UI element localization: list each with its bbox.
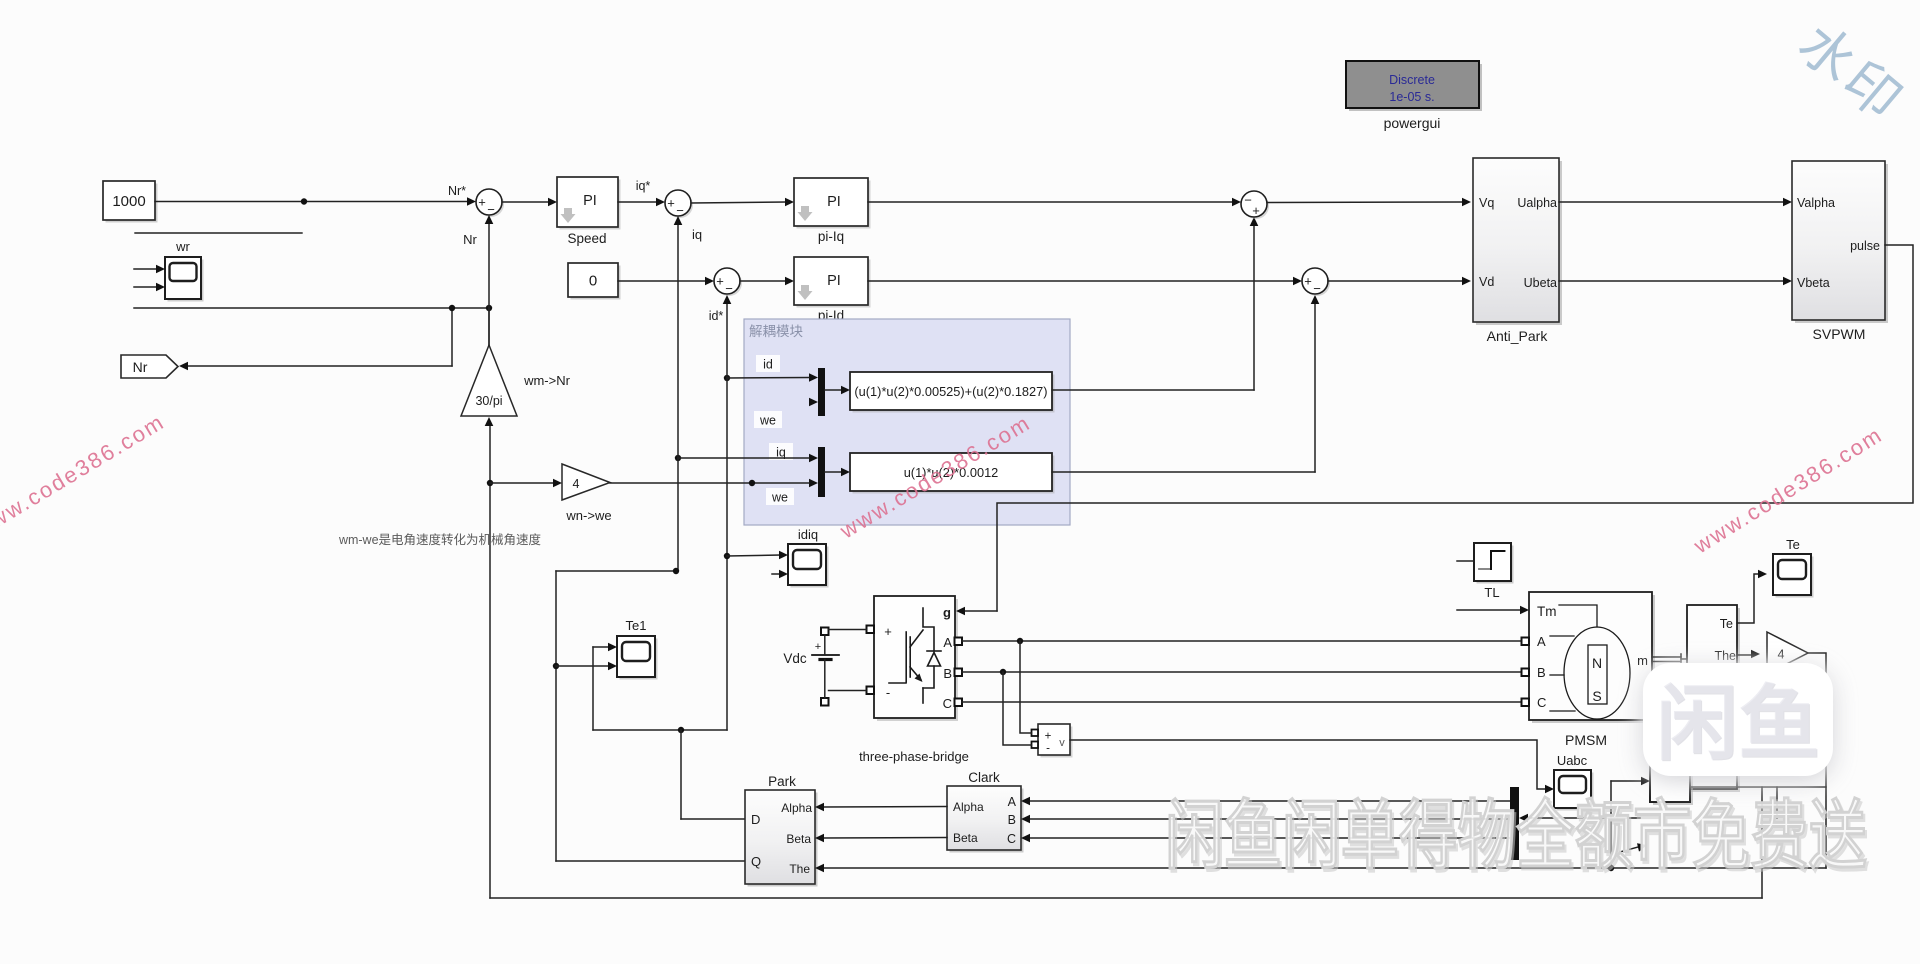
sum S3 id loop [714,268,742,296]
svg-text:B: B [1537,665,1546,680]
svg-text:www.code386.com: www.code386.com [0,409,169,543]
wire Park D output [681,730,745,819]
wire wm bottom feedback [490,897,1762,899]
svg-text:PI: PI [827,194,841,210]
Fcn F2 [850,453,1055,494]
svg-text:Te1: Te1 [626,618,647,633]
svg-text:+: + [1304,274,1312,289]
constant 1000 [103,181,158,223]
wire Nr feedback into tag [179,308,452,370]
wire id into idiq input 1 [727,551,788,560]
svg-text:Vd: Vd [1479,275,1494,289]
svg-text:A: A [1008,795,1017,809]
svg-text:A: A [1537,634,1546,649]
wire iq into mux M2 [675,455,809,461]
wire phase B tap into VM [1003,672,1032,745]
wire pi-Id to sum S5 [868,277,1302,286]
wire TL to PMSM Tm [1457,606,1529,615]
wire S3 to pi-Id [740,277,794,286]
svg-text:iq*: iq* [636,179,651,193]
svg-text:4: 4 [1778,648,1785,662]
svg-text:闲鱼: 闲鱼 [1656,679,1820,770]
svg-text:Tm: Tm [1537,604,1557,619]
wire iq feedback vertical [556,216,682,861]
svg-text:30/pi: 30/pi [475,394,502,408]
subsystem Anti_Park [1473,158,1562,344]
svg-text:0: 0 [589,273,597,290]
wire remnant arrow near theta junction [1620,843,1647,852]
powergui block [1346,61,1482,131]
sum S2 iq loop [665,190,693,218]
wire demux B to Clark [1021,815,1510,824]
svg-text:闲鱼闲单得物全额市免费送: 闲鱼闲单得物全额市免费送 [1165,794,1867,879]
PMSM magnet N S [1592,655,1602,704]
svg-text:Anti_Park: Anti_Park [1487,328,1549,344]
svg-text:we: we [759,414,776,428]
Clark block [947,770,1024,853]
wire demux C to Clark [1021,834,1510,843]
wire Ualpha to Valpha [1559,198,1792,207]
bridge IGBT icon [889,608,941,703]
sum S4 vq [1241,191,1269,219]
wire VM output to Uabc scope [1070,740,1554,793]
wire selector The to gain [1737,650,1760,659]
wire into wr input 1 [134,265,165,274]
svg-text:g: g [943,605,951,620]
wire battery plus to bridge [829,629,867,631]
wire g input [956,607,997,616]
svg-text:Vq: Vq [1479,196,1494,210]
wire S4 to Anti_Park Vq [1267,198,1471,207]
wire S2 to pi-Iq [691,198,794,207]
svg-text:SVPWM: SVPWM [1813,326,1866,342]
svg-text:Vbeta: Vbeta [1797,276,1830,290]
svg-text:Valpha: Valpha [1797,196,1835,210]
svg-text:wm->Nr: wm->Nr [523,373,571,388]
svg-text:powergui: powergui [1384,115,1441,131]
svg-text:+: + [716,274,724,289]
svg-text:C: C [943,696,952,711]
node we label [754,411,782,428]
constant 0 [568,263,621,300]
wire id feedback vertical [593,295,731,733]
svg-text:Discrete: Discrete [1389,73,1435,87]
mux M1 [809,368,850,416]
bus selector block [1687,605,1740,792]
wire pulse feedback to bridge g [997,245,1913,611]
svg-text:Vdc: Vdc [783,651,807,666]
wire selector Te to scope Te [1737,570,1767,623]
svg-text:pi-Iq: pi-Iq [818,229,844,244]
svg-text:-: - [1046,743,1050,755]
wire 0 to sum S3 [618,277,714,286]
node iq label [769,443,793,460]
svg-text:-: - [886,685,890,700]
svg-text:+: + [1045,731,1052,743]
PMSM machine block [1529,592,1655,748]
svg-text:Beta: Beta [953,831,978,845]
svg-text:m: m [1637,653,1648,668]
svg-text:+: + [884,624,892,639]
svg-text:−: − [1313,281,1321,296]
svg-text:Te: Te [1720,617,1733,631]
svg-text:−: − [1244,193,1252,208]
svg-text:wr: wr [175,239,190,254]
svg-text:C: C [1537,695,1546,710]
wire theta to Park The [815,864,1826,873]
wire Clark Alpha to Park [815,803,947,812]
hidden scope block [1650,766,1693,805]
svg-text:The: The [1714,649,1736,663]
svg-text:Beta: Beta [786,832,811,846]
svg-text:Ualpha: Ualpha [1517,196,1557,210]
svg-text:−: − [725,281,733,296]
svg-text:Uabc: Uabc [1557,753,1588,768]
wire wm feedback into 30/pi [485,417,494,898]
svg-text:we: we [771,491,788,505]
svg-text:(u(1)*u(2)*0.00525)+(u(2)*0.18: (u(1)*u(2)*0.00525)+(u(2)*0.1827) [854,384,1047,399]
svg-text:解耦模块: 解耦模块 [749,324,803,339]
svg-text:Te: Te [1786,537,1800,552]
svg-text:A: A [943,635,952,650]
wire Speed PI to sum S2 [618,198,665,207]
svg-text:+: + [478,195,486,210]
wire id into mux M1 [724,375,809,381]
svg-text:Clark: Clark [968,770,1000,785]
wire S1 to Speed PI [502,198,557,207]
svg-text:Alpha: Alpha [781,801,812,815]
svg-text:水印: 水印 [1787,13,1914,134]
svg-text:−: − [676,203,684,218]
wire 1000 to speed sum [155,197,476,206]
svg-text:Ubeta: Ubeta [1524,276,1557,290]
svg-text:TL: TL [1484,585,1499,600]
svg-text:B: B [1008,813,1016,827]
gain 30/pi [461,345,571,416]
sum S1 speed loop [476,189,504,217]
wire Nr feedback horizontal [134,305,492,311]
svg-text:PI: PI [583,193,597,209]
mux M2 [809,447,850,497]
svg-text:N: N [1592,655,1602,671]
svg-text:Nr*: Nr* [448,184,466,198]
svg-text:1e-05 s.: 1e-05 s. [1389,90,1434,104]
svg-text:id: id [763,358,773,372]
svg-text:Park: Park [768,774,796,789]
wire wm branch into gain 4 [490,479,562,488]
svg-text:Speed: Speed [567,231,606,246]
subsystem SVPWM [1792,161,1888,342]
svg-text:id*: id* [709,309,724,323]
scope Uabc [1554,753,1594,811]
wire S5 to Anti_Park Vd [1328,277,1471,286]
svg-text:+: + [815,641,821,653]
svg-text:4: 4 [573,477,580,491]
wire selector lower outputs [1690,787,1826,898]
node we label 2 [766,488,794,505]
three-phase-bridge block [859,596,969,764]
svg-text:D: D [751,812,760,827]
wire phase C [962,701,1521,703]
sum S5 vd [1302,268,1330,296]
watermark xianyu logo [1643,663,1833,776]
svg-text:Nr: Nr [463,232,477,247]
decoupling subsystem box [744,319,1070,525]
svg-text:wm-we是电角速度转化为机械角速度: wm-we是电角速度转化为机械角速度 [338,532,542,547]
svg-text:Alpha: Alpha [953,800,984,814]
PI controller pi-Id [794,257,871,323]
wire phase A [962,638,1521,644]
scope idiq [788,527,829,588]
svg-text:C: C [1007,832,1016,846]
goto tag Nr [121,355,178,378]
wire Ubeta to Vbeta [1559,277,1792,286]
scope wr [165,239,204,302]
wire into Te1 input 1 [593,643,617,652]
battery Vdc [783,628,839,706]
scope Te1 [617,618,658,680]
bus m from PMSM to selector [1652,654,1687,664]
wire pi-Iq to sum S4 [868,198,1241,207]
PMSM rotor icon [1550,605,1630,719]
step source TL [1457,543,1514,600]
wire phase B [962,669,1521,675]
wire phase A tap into VM [1020,641,1032,733]
svg-text:pulse: pulse [1850,239,1880,253]
wire F2 output to sum S5 [1052,295,1319,472]
svg-text:−: − [487,202,495,217]
svg-text:PI: PI [827,273,841,289]
Park block [745,774,818,887]
wire Park Q output [556,860,745,862]
svg-text:B: B [943,666,952,681]
PI controller pi-Iq [794,178,871,244]
svg-text:+: + [667,196,675,211]
svg-text:wn->we: wn->we [565,508,611,523]
PI controller Speed [557,177,621,246]
wire stub under constant [135,232,302,234]
svg-text:S: S [1592,688,1601,704]
svg-text:Nr: Nr [133,359,148,375]
scope Te [1773,537,1814,598]
wire gain 30/pi output up to S1 [488,308,490,345]
wire gain output to theta line [1808,653,1826,868]
svg-text:idiq: idiq [798,527,818,542]
svg-text:PMSM: PMSM [1565,732,1607,748]
gain 4 wn-we [562,464,612,523]
svg-text:Q: Q [751,854,761,869]
wire into Te1 input 2 [553,662,617,671]
wire we gain4 output into mux M2 [610,480,809,486]
voltage measurement VM [1032,724,1073,758]
svg-text:+: + [1252,203,1260,218]
wire battery minus to bridge [829,690,867,692]
PMSM port squares [1522,638,1530,707]
wire Clark Beta to Park [815,834,947,843]
bridge port squares [867,626,963,707]
wire F1 output to sum S4 [1052,217,1258,390]
svg-text:v: v [1059,737,1065,749]
wire Nr vertical into S1 [485,215,494,345]
wire into hidden block [1611,777,1650,868]
svg-text:The: The [789,862,810,876]
svg-text:iq: iq [692,227,702,242]
wire stub idiq input 2 [772,570,788,579]
svg-text:1000: 1000 [112,193,145,210]
wire demux A to Clark [1021,797,1510,806]
svg-text:three-phase-bridge: three-phase-bridge [859,749,969,764]
wire into wr input 2 [134,283,165,292]
Fcn F1 [850,372,1055,413]
demux bar [1510,787,1640,860]
node id label [756,355,780,372]
gain 4 theta [1767,632,1808,674]
